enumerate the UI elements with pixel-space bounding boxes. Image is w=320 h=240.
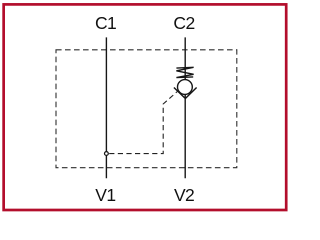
svg-text:C2: C2 <box>173 13 194 33</box>
valve enclosure (dashed subplate boundary) <box>56 50 237 168</box>
svg-text:V1: V1 <box>95 185 115 205</box>
svg-text:V2: V2 <box>174 185 194 205</box>
check valve seat <box>174 88 197 99</box>
spring (check valve bias spring) <box>176 67 193 77</box>
check valve ball <box>178 80 193 95</box>
red page border frame <box>4 4 287 210</box>
node (pilot tap junction) on left line <box>105 152 109 156</box>
wire C1-V1 (left flow line) <box>105 37 107 178</box>
wire C2-V2 (right flow line) <box>184 37 186 178</box>
pilot line (dashed) from node on C1-V1 line to valve seat <box>109 90 178 153</box>
svg-text:C1: C1 <box>95 13 116 33</box>
